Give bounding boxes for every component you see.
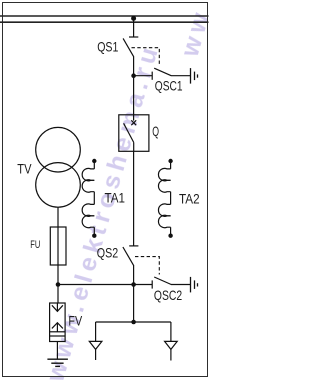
junction node B (FU / FV tap) [56,282,61,287]
wire: FU to node B [57,265,59,285]
wire: QS1 blade to node A [133,56,135,75]
disconnector QS2 (contact tick + blade) [123,246,138,266]
svg-text:TA1: TA1 [105,190,126,205]
wire: QSC2 blade to earth [171,284,191,286]
wire: node C to node D [133,285,135,323]
earthing switch QSC1 (tick bar + blade) [152,68,171,80]
wire: outgoing header [96,321,171,323]
svg-text:QS1: QS1 [97,40,118,55]
wire: Q to QS2 contact [133,151,135,246]
wire: node C to QSC2 contact [134,284,153,286]
ground: QSC2 earth (3 bars) [191,277,198,293]
wire: node A to QSC1 contact [134,75,153,77]
wire: node A to breaker Q [133,76,135,115]
wire: QS2 blade to node C [133,265,135,285]
circuit breaker Q (box with X contact and blade) [119,115,149,152]
wire: bus to QS1 contact [133,19,135,37]
wire: right feeder drop [170,322,172,341]
surge arrester FV (box, opposing arrows, electrode bars) [50,303,66,342]
disconnector QS1 (contact tick + blade) [123,37,138,57]
junction node A (QS1 / QSC1 tap) [131,73,136,78]
frame border [3,3,208,377]
mechanical link QS2-QSC2 (dashed) [135,257,159,275]
ground: FV earth (3 bars) [47,359,68,366]
ground: QSC1 earth (3 bars) [191,68,198,84]
node: TA1 bottom terminal [92,234,96,238]
node: TA1 top terminal [92,159,96,163]
svg-text:QS2: QS2 [97,246,118,261]
wire: left feeder drop [95,322,97,341]
fuse FU (rect with through wire) [50,227,66,265]
top busbar (double line) [0,16,209,22]
junction node C (QS2 / QSC2 tap) [131,282,136,287]
junction node D (outgoing tee) [131,320,136,325]
junction: bus tap node [131,16,136,21]
node: TA2 bottom terminal [168,234,172,238]
cable termination: right feeder (open triangle + stub) [165,341,178,360]
current transformer TA1 (winding with end nodes) [82,161,94,236]
voltage transformer TV (two circles) [36,127,81,207]
svg-text:FV: FV [68,313,82,328]
svg-text:TA2: TA2 [179,192,200,207]
wire: node B to node C (TV branch tie) [58,284,134,286]
svg-text:Q: Q [152,124,159,139]
mechanical link QS1-QSC1 (dashed) [132,48,160,66]
wire: QSC1 blade to earth [171,75,191,77]
wire: TV to fuse FU [57,207,59,227]
cable termination: left feeder (open triangle + stub) [89,341,102,360]
svg-text:FU: FU [30,239,40,251]
wire: FV to earth [56,342,58,360]
svg-text:TV: TV [17,162,31,177]
svg-text:QSC2: QSC2 [154,288,182,303]
current transformer TA2 (winding with end nodes) [158,161,170,236]
wire: node B to arrester FV [57,285,59,304]
watermark text www.elektroshema.ru (diagonal) [41,5,216,380]
earthing switch QSC2 (tick bar + blade) [152,277,171,289]
node: TA2 top terminal [168,159,172,163]
svg-text:QSC1: QSC1 [155,78,183,93]
